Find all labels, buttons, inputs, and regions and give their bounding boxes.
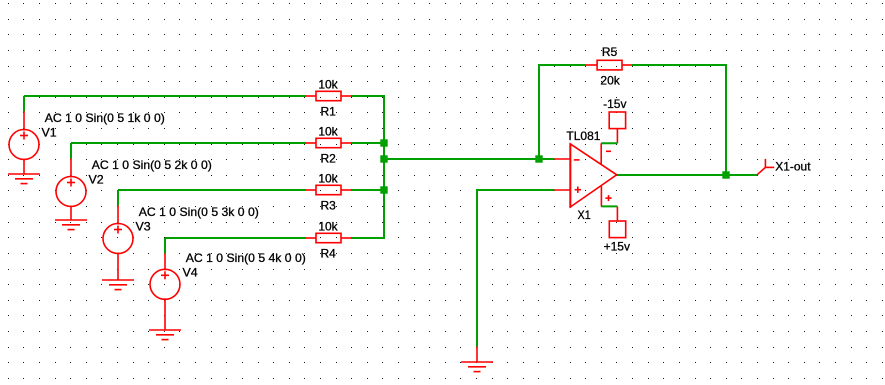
svg-text:V1: V1 <box>42 126 58 140</box>
svg-text:10k: 10k <box>318 171 338 185</box>
svg-text:V3: V3 <box>136 220 152 234</box>
svg-text:R1: R1 <box>321 104 337 118</box>
svg-text:-15v: -15v <box>603 97 626 111</box>
svg-text:AC 1 0 Sin(0 5 1k 0 0): AC 1 0 Sin(0 5 1k 0 0) <box>45 111 165 125</box>
svg-text:X1-out: X1-out <box>775 160 811 174</box>
svg-text:R5: R5 <box>602 45 618 59</box>
svg-text:R2: R2 <box>321 151 337 165</box>
svg-text:R4: R4 <box>321 246 337 260</box>
svg-text:AC 1 0 Sin(0 5 3k 0 0): AC 1 0 Sin(0 5 3k 0 0) <box>139 205 259 219</box>
svg-text:10k: 10k <box>318 124 338 138</box>
svg-text:V4: V4 <box>183 265 199 279</box>
svg-text:+15v: +15v <box>604 240 630 254</box>
svg-text:TL081: TL081 <box>566 129 600 143</box>
svg-text:AC 1 0 Sin(0 5 4k 0 0): AC 1 0 Sin(0 5 4k 0 0) <box>186 251 306 265</box>
svg-text:X1: X1 <box>578 208 591 222</box>
svg-text:20k: 20k <box>600 73 620 87</box>
svg-text:R3: R3 <box>321 198 337 212</box>
svg-text:10k: 10k <box>318 77 338 91</box>
svg-text:AC 1 0 Sin(0 5 2k 0 0): AC 1 0 Sin(0 5 2k 0 0) <box>92 158 212 172</box>
svg-text:10k: 10k <box>318 219 338 233</box>
svg-text:V2: V2 <box>89 173 105 187</box>
